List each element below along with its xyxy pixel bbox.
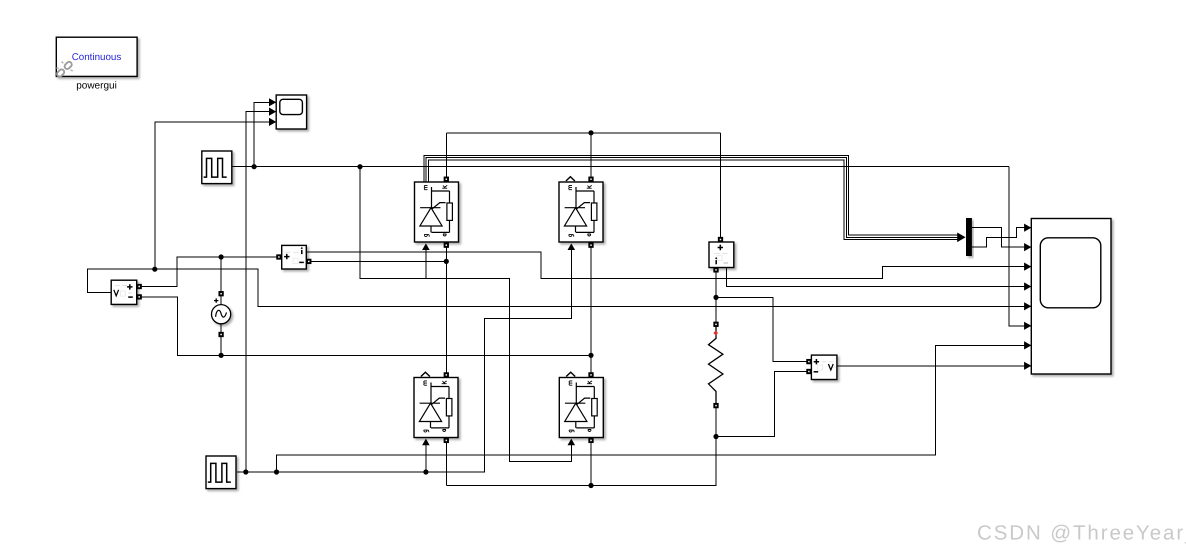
svg-text:Continuous: Continuous bbox=[72, 52, 122, 63]
svg-text:powergui: powergui bbox=[76, 81, 117, 92]
svg-text:CSDN @ThreeYear_s: CSDN @ThreeYear_s bbox=[977, 522, 1186, 545]
